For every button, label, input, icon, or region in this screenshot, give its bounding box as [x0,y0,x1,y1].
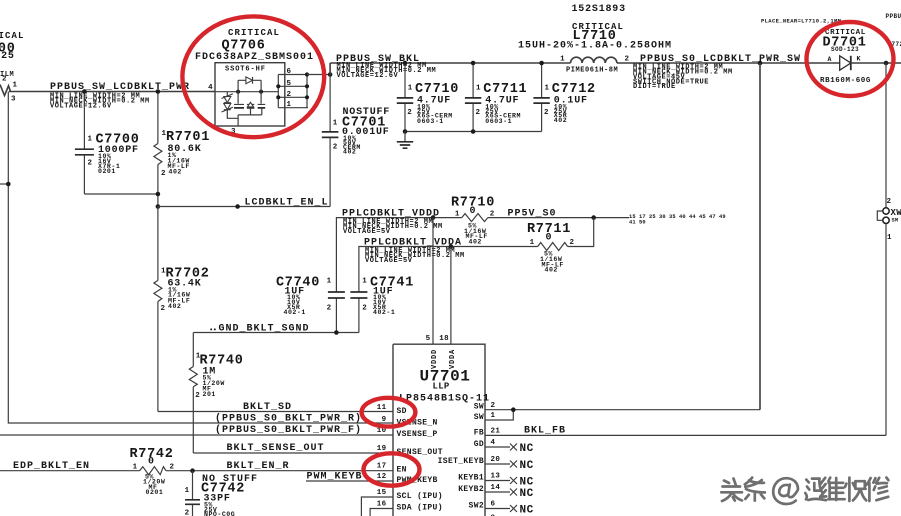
node pin5 junction [431,215,436,220]
svg-text:RB160M-60G: RB160M-60G [820,77,871,85]
svg-text:402: 402 [168,303,181,310]
svg-text:VOLTAGE=5V: VOLTAGE=5V [365,257,413,265]
wire (PPBUS_S0_BKLT_PWR_F) [0,424,393,436]
svg-text:402-1: 402-1 [284,309,306,316]
svg-text:SCL (IPU): SCL (IPU) [397,492,443,501]
svg-text:SD: SD [397,407,407,416]
svg-text:1: 1 [560,56,565,64]
svg-text:1: 1 [476,84,481,92]
resistor R7701 [154,92,210,207]
svg-text:1: 1 [327,277,332,285]
red circle around pins 17/12 [364,453,420,485]
diode D7701 [820,29,871,85]
red circle around Q7706 [182,16,324,137]
svg-text:402: 402 [343,148,356,155]
wire diode output to right edge [851,62,901,64]
capacitor C7742 (NO STUFF) [185,471,258,516]
svg-text:402: 402 [469,238,482,245]
svg-text:SSOT6-HF: SSOT6-HF [225,65,266,73]
U7701 right NC pins [474,439,534,455]
svg-text:NC: NC [520,443,534,455]
red circle around D7701 [807,22,894,96]
svg-text:2: 2 [570,239,575,247]
svg-text:VOLTAGE=12.6V: VOLTAGE=12.6V [50,102,112,110]
red circle around pins 11/9 [362,398,416,427]
wire LCDBKLT_EN_L [158,197,330,208]
svg-text:BKL_FB: BKL_FB [524,426,566,437]
Q7706 pin strip (pins 6,5,2,1) [276,68,309,109]
svg-text:1: 1 [13,82,18,90]
svg-text:0: 0 [148,457,155,468]
svg-text:FDC638APZ_SBMS001: FDC638APZ_SBMS001 [195,52,314,63]
svg-text:402: 402 [554,117,567,124]
svg-text:NC: NC [520,504,534,516]
svg-text:2: 2 [491,402,496,410]
svg-text:VOLTAGE=12.6V: VOLTAGE=12.6V [337,72,399,80]
junction EN_L / Q7706 pin3 [235,204,240,209]
svg-text:R7701: R7701 [166,130,210,145]
svg-text:PPBU: PPBU [886,13,901,20]
resistor R7711 [527,222,575,274]
svg-text:FB: FB [474,428,484,437]
capacitor C7740 [276,275,345,332]
svg-text:LCDBKLT_EN_L: LCDBKLT_EN_L [245,197,329,208]
wire BKLT_SD [158,402,393,413]
svg-text:BKLT_SENSE_OUT: BKLT_SENSE_OUT [227,443,325,454]
svg-text:14: 14 [491,484,501,492]
svg-text:15UH-20%-1.8A-0.258OHM: 15UH-20%-1.8A-0.258OHM [518,41,672,52]
svg-text:2: 2 [195,392,200,400]
svg-text:6: 6 [287,68,292,76]
wire PPBUS_SW_LCDBKLT_PWR (top-left horizontal) [9,82,215,110]
resistor R7740 [189,333,243,454]
svg-text:12: 12 [377,473,387,481]
IC U7701 [393,344,490,516]
svg-text:BKLT_SD: BKLT_SD [243,402,292,413]
svg-text:402: 402 [545,267,558,274]
resistor R7710 [451,195,495,245]
svg-text:A: A [828,56,832,63]
svg-text:PP5V_S0: PP5V_S0 [508,209,557,220]
svg-text:2: 2 [327,304,332,312]
wire EDP_BKLT_EN [0,461,140,472]
svg-text:1: 1 [545,84,550,92]
svg-text:1: 1 [287,101,292,109]
svg-text:13: 13 [491,473,501,481]
svg-text:1: 1 [887,234,892,242]
svg-text:SDA (IPU): SDA (IPU) [397,504,443,513]
wire PWM_KEYB [306,472,393,483]
svg-text:DIDT=TRUE: DIDT=TRUE [633,83,676,91]
svg-text:1: 1 [333,120,338,128]
wire BKLT_SENSE_OUT [193,443,393,454]
capacitor C7710 [397,63,459,132]
svg-text:VSENSE_P: VSENSE_P [397,430,438,439]
svg-text:NC: NC [520,488,534,500]
svg-text:VDDD: VDDD [431,349,439,369]
svg-text:SW: SW [474,413,484,422]
connector XW7701 [877,63,901,435]
svg-text:1: 1 [133,464,138,472]
svg-text:ISET_KEYB: ISET_KEYB [438,457,484,466]
svg-text:2: 2 [407,109,412,117]
svg-text:VOLTAGE=5V: VOLTAGE=5V [343,228,391,236]
resistor R7742 [130,447,175,496]
svg-text:2: 2 [161,305,166,313]
wire PPBUS_SW_BKL (main top rail) [330,54,570,80]
svg-text:2: 2 [161,170,166,178]
svg-text:18: 18 [439,335,449,343]
svg-text:2: 2 [333,144,338,152]
svg-text:KEYB1: KEYB1 [458,474,484,483]
svg-text:0603-1: 0603-1 [417,118,444,125]
svg-text:1: 1 [88,136,93,144]
svg-text:EN: EN [397,465,407,474]
svg-text:SW: SW [474,403,484,412]
capacitor C7701 (NOSTUFF) [322,75,390,207]
svg-text:2: 2 [362,304,367,312]
svg-text:5: 5 [287,80,292,88]
svg-text:41 50: 41 50 [629,219,646,225]
node pin18 junction [449,244,454,249]
transistor Q7706 [195,28,314,136]
watermark 头条@迅维快修 [721,478,888,504]
svg-text:SOD-123: SOD-123 [831,46,859,53]
node switch node junction [758,61,763,66]
svg-text:(PPBUS_S0_BKLT_PWR_R): (PPBUS_S0_BKLT_PWR_R) [215,412,362,424]
svg-text:EDP_BKLT_EN: EDP_BKLT_EN [13,461,90,472]
wire PP5V_S0 [488,209,726,226]
wire C7700 bottom to R7701 bottom [84,193,157,195]
svg-text:CRITICAL: CRITICAL [228,28,280,38]
svg-text:402: 402 [169,168,182,175]
fuse F7700 (partial, left edge) [0,31,25,104]
svg-text:VDDA: VDDA [449,349,457,369]
svg-text:0603-1: 0603-1 [485,118,512,125]
U7701 pin FB / wire BKL_FB [474,426,886,438]
svg-text:1: 1 [408,84,413,92]
junction R7701 bottom [156,192,161,197]
inductor L7710 [518,4,672,75]
wire SDA (IPU) [370,509,393,516]
ground symbol [397,132,413,149]
svg-text:4: 4 [491,439,496,447]
junction R7701 top [156,89,161,94]
svg-text:0201: 0201 [98,168,116,175]
svg-text:9: 9 [382,416,387,424]
svg-text:SM: SM [892,217,899,223]
svg-text:402-1: 402-1 [373,309,395,316]
svg-text:15: 15 [377,489,387,497]
wire PPLCDBKLT_VDDD [336,209,461,293]
capacitor C7712 [533,63,595,132]
svg-text:2: 2 [287,91,292,99]
svg-text:NC: NC [520,476,534,488]
node junction (8.3,184) [6,182,11,187]
svg-text:KEYB2: KEYB2 [458,485,484,494]
resistor R7702 [154,207,210,412]
svg-text:2: 2 [544,109,549,117]
svg-text:BKLT_EN_R: BKLT_EN_R [227,461,290,472]
svg-text:2: 2 [2,76,7,84]
svg-text:17: 17 [377,462,387,470]
svg-text:1: 1 [185,487,190,495]
capacitor C7741 [350,275,414,332]
svg-text:1: 1 [455,211,460,219]
wire PPBUS_S0_LCDBKLT_PWR_SW [617,17,842,91]
wire GND_BKLT_SGND [193,323,359,334]
svg-text:4: 4 [208,84,213,92]
svg-text:5: 5 [426,335,431,343]
svg-text:2: 2 [887,198,892,206]
U7701 right pins SW/SW (2/1) [474,63,760,422]
svg-text:1: 1 [362,277,367,285]
svg-text:NC: NC [520,460,534,472]
wire BKLT_EN_R [166,461,393,472]
svg-text:PWM_KEYB: PWM_KEYB [307,472,363,483]
svg-text:PLACE_NEAR=L7710.2,1MM: PLACE_NEAR=L7710.2,1MM [761,17,842,24]
capacitor C7700 [75,92,140,195]
U7701 left pin labels [377,404,443,513]
svg-text:2: 2 [185,510,190,516]
U7701 top pins 5 / 18 [426,218,457,369]
svg-text:6: 6 [491,501,496,509]
svg-text:2: 2 [476,109,481,117]
junction C7700 top [82,89,87,94]
wire left vertical (PPBUS_S0_BKLT_PWR_R run) [0,92,393,424]
svg-text:1: 1 [491,412,496,420]
svg-text:2: 2 [88,160,93,168]
svg-text:GND_BKLT_SGND: GND_BKLT_SGND [219,323,310,334]
svg-text:16: 16 [377,501,387,509]
svg-text:201: 201 [203,391,216,398]
svg-text:152S1893: 152S1893 [572,4,626,15]
svg-text:(PPBUS_S0_BKLT_PWR_F): (PPBUS_S0_BKLT_PWR_F) [215,424,362,436]
capacitor C7711 [465,63,527,132]
svg-text:K: K [857,55,861,62]
wire capacitor bottom rail [405,131,542,133]
svg-text:0: 0 [470,206,477,217]
wire Q7706 drain to PPBUS_SW_BKL [307,74,330,76]
svg-text:ICAL: ICAL [0,31,25,41]
svg-text:PIME061H-8M: PIME061H-8M [566,67,618,75]
svg-text:GD: GD [474,440,484,449]
svg-text:LLP: LLP [433,382,450,392]
svg-text:25: 25 [1,51,15,62]
svg-text:0: 0 [546,233,553,244]
svg-text:0201: 0201 [146,489,164,496]
wire SCL (IPU) [361,497,393,516]
wire R7711 to PP5V_S0 [568,218,594,247]
svg-text:SW2: SW2 [469,502,484,511]
svg-text:21: 21 [491,428,501,436]
svg-text:20: 20 [491,456,501,464]
wire PPLCDBKLT_VDDA [359,237,538,292]
svg-text:NPO-C0G: NPO-C0G [204,511,235,516]
svg-text:11: 11 [377,404,387,412]
svg-text:3: 3 [11,96,16,104]
svg-text:1: 1 [530,239,535,247]
